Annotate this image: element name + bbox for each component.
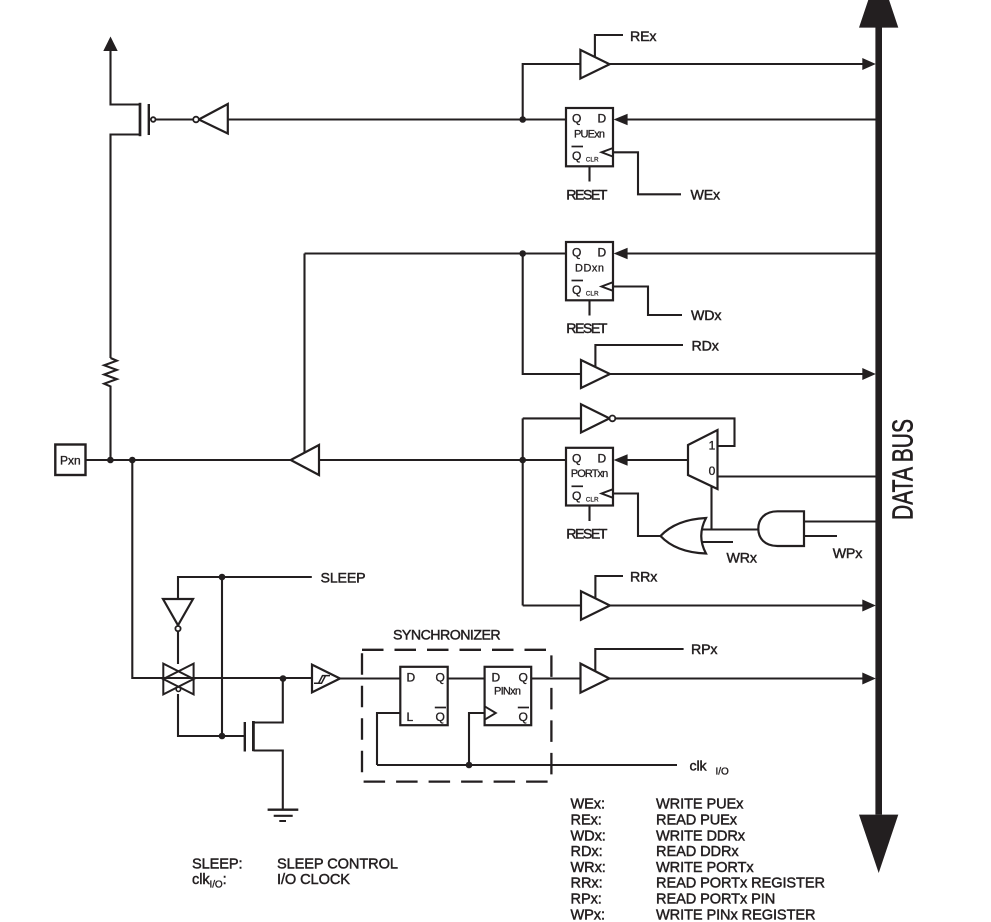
node clk junction <box>466 762 473 769</box>
wire inverter U4 output to mux input 1 <box>615 418 734 446</box>
svg-text:PUExn: PUExn <box>574 129 605 141</box>
svg-text:Q: Q <box>572 452 581 466</box>
wire RPx enable <box>595 649 683 672</box>
data bus bottom arrowhead <box>859 815 898 873</box>
wire Pxn node down to input path <box>132 460 312 678</box>
latch U12 first synchronizer stage <box>400 667 447 725</box>
svg-text:REx:: REx: <box>571 813 602 829</box>
wire driver enable vertical <box>303 254 305 455</box>
svg-text:RESET: RESET <box>566 187 607 203</box>
wire PMOS drain to resistor <box>111 135 141 359</box>
svg-text:SYNCHRONIZER: SYNCHRONIZER <box>393 628 501 644</box>
svg-text:PORTxn: PORTxn <box>571 468 609 480</box>
svg-text:WRx: WRx <box>727 551 757 567</box>
transistor Q1 PMOS pull-up <box>140 103 156 136</box>
node NMOS gate junction <box>219 733 226 740</box>
svg-text:Q: Q <box>572 489 581 503</box>
wire RRx enable <box>595 576 623 598</box>
arrowhead mux to PORTxn D <box>614 454 628 466</box>
svg-text:READ PUEx: READ PUEx <box>656 813 738 829</box>
arrowhead RPx to bus <box>862 673 876 685</box>
svg-text:Q: Q <box>572 112 581 126</box>
wire VCC to PMOS source <box>111 46 141 105</box>
wire DDxn Q to driver enable <box>305 252 567 254</box>
svg-text:CLR: CLR <box>586 291 599 298</box>
svg-text:CLR: CLR <box>586 497 599 504</box>
wire NMOS drain up to pin line <box>254 679 283 723</box>
wire NMOS source to ground <box>254 751 283 810</box>
svg-text:L: L <box>407 710 414 724</box>
wire PORTxn Q branch to inverter U4 input <box>523 417 581 419</box>
wire Schmitt U3 output to latch D <box>340 677 400 679</box>
svg-text:RESET: RESET <box>566 321 607 337</box>
svg-text:READ PORTx PIN: READ PORTx PIN <box>656 892 775 908</box>
svg-text:PINxn: PINxn <box>494 686 521 698</box>
wire PINxn Q to RPx buffer <box>531 677 580 679</box>
wire RRx buffer input <box>523 604 581 606</box>
svg-text:WRITE PORTx: WRITE PORTx <box>656 860 754 876</box>
pad Pxn box <box>55 445 85 476</box>
clock wedge DDxn <box>602 282 614 291</box>
svg-text:D: D <box>492 671 501 685</box>
wire data bus to AND G2 input <box>804 520 876 522</box>
node SLEEP junction <box>219 574 226 581</box>
svg-text:RRx:: RRx: <box>571 876 603 892</box>
svg-text:D: D <box>407 671 416 685</box>
svg-text:DATA BUS: DATA BUS <box>888 419 920 520</box>
wire PORTxn Q to output driver input <box>319 459 566 461</box>
svg-text:Q: Q <box>519 671 528 685</box>
wire transmission gate lower control <box>178 694 244 736</box>
wire REx buffer output to data bus <box>610 63 864 65</box>
svg-text:WRITE PINx REGISTER: WRITE PINx REGISTER <box>656 907 815 922</box>
power VCC arrow <box>103 37 117 52</box>
wire PUExn clock to WEx <box>613 152 681 194</box>
svg-text:WEx:: WEx: <box>571 797 605 813</box>
arrowhead RDx to bus <box>862 368 876 380</box>
wire PORTxn RESET stub <box>588 506 590 522</box>
svg-text:clk: clk <box>690 758 708 774</box>
clock wedge PUExn <box>602 148 614 157</box>
inverter U4 PORTxn toggle <box>581 404 615 432</box>
wire Pxn pad to output driver <box>85 459 290 461</box>
wire data bus to mux input 0 <box>718 475 876 477</box>
svg-text:WDx: WDx <box>691 308 721 324</box>
mux MUX1 <box>688 430 718 489</box>
wire clk I/O net <box>377 764 677 766</box>
wire WRx input stub to OR G1 <box>698 541 733 543</box>
svg-text:DDxn: DDxn <box>575 263 604 275</box>
wire clk branch to PINxn clock <box>469 713 485 765</box>
tri-state output driver U9 <box>291 445 319 475</box>
ground <box>268 810 299 821</box>
svg-text:D: D <box>598 452 607 466</box>
wire OR G1 output to PORTxn clock <box>613 494 661 537</box>
buffer REx U2 <box>580 50 609 79</box>
svg-text:D: D <box>598 246 607 260</box>
wire SLEEP vertical to NMOS gate <box>221 577 223 736</box>
data bus line <box>875 24 882 815</box>
transmission gate TG1 <box>163 664 193 695</box>
resistor R1 pull-up <box>104 358 117 460</box>
svg-text:RRx: RRx <box>630 569 657 585</box>
wire RDx buffer output to data bus <box>610 373 864 375</box>
svg-text:Pxn: Pxn <box>60 453 81 467</box>
wire data bus to PUExn D <box>627 118 876 120</box>
wire PORTxn Q vertical branch to RRx <box>522 418 524 605</box>
flip-flop PORTxn U10 <box>566 448 613 506</box>
svg-text:Q: Q <box>519 710 528 724</box>
svg-text:SLEEP:: SLEEP: <box>192 857 243 873</box>
svg-text:CLR: CLR <box>586 157 599 164</box>
wire REx enable <box>595 35 623 58</box>
wire mux output to PORTxn D <box>627 459 688 461</box>
svg-text:Q: Q <box>572 246 581 260</box>
svg-text:REx: REx <box>630 29 656 45</box>
svg-text:WEx: WEx <box>691 187 721 203</box>
wire SLEEP net <box>178 577 312 599</box>
transistor Q2 NMOS <box>245 721 254 752</box>
arrowhead REx to bus <box>862 58 876 70</box>
svg-text:I/O: I/O <box>716 766 730 777</box>
arrowhead bus to PUExn D <box>614 114 628 126</box>
wire WPx stub to AND G2 <box>804 535 837 537</box>
svg-text:WPx: WPx <box>833 546 863 562</box>
svg-text:RDx: RDx <box>692 338 719 354</box>
arrowhead RRx to bus <box>862 600 876 612</box>
node DDxn Q junction <box>519 250 526 257</box>
svg-text:WRITE DDRx: WRITE DDRx <box>656 828 746 844</box>
flip-flop PUExn U6 <box>566 108 613 166</box>
clock wedge PINxn <box>485 706 496 719</box>
schmitt trigger U3 <box>312 665 340 693</box>
svg-text:Q: Q <box>572 283 581 297</box>
svg-text:SLEEP CONTROL: SLEEP CONTROL <box>277 857 398 873</box>
wire DDxn clock to WDx <box>613 287 682 316</box>
wire data bus to DDxn D <box>627 252 876 254</box>
svg-text:WRx:: WRx: <box>571 860 606 876</box>
svg-text:RPx:: RPx: <box>571 892 602 908</box>
svg-text:RDx:: RDx: <box>571 844 603 860</box>
svg-text:RESET: RESET <box>566 527 607 543</box>
wire AND G2 output to OR G1 input <box>697 528 761 530</box>
svg-text:I/O CLOCK: I/O CLOCK <box>277 872 350 888</box>
wire PUExn RESET stub <box>588 166 590 182</box>
wire DDxn Q branch down to RDx buffer <box>523 254 581 375</box>
wire PMOS gate to inverter U1 <box>156 118 194 120</box>
node pull-up to pin junction <box>107 457 114 464</box>
latch U13 PINxn <box>485 667 532 725</box>
node NMOS drain junction <box>280 675 287 682</box>
svg-text:D: D <box>598 112 607 126</box>
wire PUExn Q branch up to REx buffer <box>523 64 581 120</box>
svg-text:Q: Q <box>436 671 445 685</box>
svg-text:READ DDRx: READ DDRx <box>656 844 739 860</box>
wire RPx buffer output to data bus <box>609 677 864 679</box>
buffer RDx U8 <box>581 360 610 388</box>
wire latch1 Q to PINxn D <box>448 677 485 679</box>
svg-text:1: 1 <box>709 439 716 453</box>
inverter U1 pull-up enable <box>193 104 228 134</box>
svg-text:SLEEP: SLEEP <box>321 571 366 587</box>
or-gate G1 write-port clock <box>661 518 707 554</box>
wire inverter U1 input from PUExn Q <box>228 118 566 120</box>
svg-text:0: 0 <box>709 464 716 478</box>
flip-flop DDxn U7 <box>566 242 613 300</box>
clock wedge PORTxn <box>602 489 614 498</box>
wire DDxn RESET stub <box>588 300 590 316</box>
and-gate G2 WPx <box>758 511 804 546</box>
synchronizer dashed box <box>362 650 551 782</box>
node PORTxn Q junction <box>519 457 526 464</box>
buffer RPx U14 <box>581 664 610 693</box>
node PUExn Q junction <box>519 116 526 123</box>
arrowhead bus to DDxn D <box>614 248 628 260</box>
wire mux select <box>710 486 712 530</box>
wire RDx enable <box>595 345 683 367</box>
inverter U5 sleep <box>163 599 193 631</box>
svg-text:WDx:: WDx: <box>571 828 606 844</box>
wire RRx buffer output to data bus <box>610 604 864 606</box>
svg-text:WRITE PUEx: WRITE PUEx <box>656 797 744 813</box>
data bus top arrowhead <box>859 0 898 28</box>
wire latch1 L input to clk net <box>377 713 400 765</box>
svg-text:Q: Q <box>572 149 581 163</box>
svg-text:RPx: RPx <box>691 642 717 658</box>
svg-text:READ PORTx REGISTER: READ PORTx REGISTER <box>656 876 825 892</box>
svg-text:Q: Q <box>436 710 445 724</box>
wire inverter U5 output to transmission gate <box>177 632 179 665</box>
buffer RRx U11 <box>581 591 610 619</box>
node pin input branch junction <box>129 457 136 464</box>
svg-text:WPx:: WPx: <box>571 907 605 922</box>
